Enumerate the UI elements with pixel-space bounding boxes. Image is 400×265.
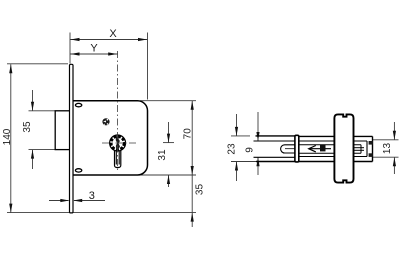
35 bottom arrow (outside, below) [191, 213, 194, 222]
3 dim lines [49, 200, 69, 202]
70/31/35 mid extension (body bottom) [138, 174, 197, 176]
X dimension line [70, 39, 148, 41]
svg-text:9: 9 [245, 147, 256, 153]
svg-text:Y: Y [90, 43, 98, 55]
70 arrows [191, 101, 194, 110]
svg-text:3: 3 [89, 190, 95, 202]
31 arrows (outside) [167, 134, 170, 143]
70/35 dim vertical line [191, 101, 193, 227]
13 dim tails [393, 122, 395, 140]
tube outer [256, 135, 296, 137]
23 top extension [231, 135, 250, 137]
cylinder nose capsule [281, 145, 295, 153]
follower arrow inside body [309, 145, 331, 152]
lines right of plate [354, 147, 365, 149]
svg-text:140: 140 [2, 128, 13, 145]
9 dim tails [257, 112, 259, 141]
black block [320, 145, 326, 151]
Y arrows [71, 52, 80, 55]
140 arrows [9, 64, 12, 73]
euro cylinder: plug circle [110, 135, 126, 151]
35 protrusion box on back of faceplate [55, 111, 69, 150]
140 dimension line [10, 64, 12, 212]
cylinder knurling (dark ring with slots) [111, 137, 124, 150]
bold end marks [369, 141, 373, 145]
cylinder keyway dark centre [116, 136, 120, 149]
screw head [102, 118, 109, 125]
svg-text:13: 13 [382, 143, 393, 155]
35 left dim: tails [32, 90, 34, 111]
Y dimension line [70, 53, 118, 55]
body outer [299, 135, 373, 137]
70 top extension [140, 100, 196, 102]
X arrows [71, 38, 80, 41]
body inner channel [299, 140, 367, 142]
faceplate (edge-on) [295, 135, 299, 162]
23/tube bottom extension [231, 161, 256, 163]
svg-text:31: 31 [157, 149, 168, 161]
lock body (side view) [299, 136, 373, 161]
arrowheads, right view [235, 127, 396, 171]
svg-text:35: 35 [194, 184, 205, 196]
oval slot bottom [75, 169, 81, 172]
35 left extension lines [29, 110, 56, 112]
extension line right (body right edge up) [147, 33, 149, 100]
cylinder tube (side view) [254, 136, 296, 162]
lock body [73, 101, 148, 175]
35 left arrows (outside pointing in) [31, 102, 34, 111]
23 arrows [235, 127, 238, 136]
oval slot top [75, 103, 81, 106]
3 arrows [60, 199, 69, 202]
svg-text:23: 23 [226, 143, 237, 155]
23 dim tails [236, 114, 238, 136]
13 arrows [393, 131, 396, 140]
key slot inner lines [115, 150, 117, 165]
body right end cap [372, 136, 374, 161]
svg-text:70: 70 [183, 128, 194, 140]
13 extension lines [373, 139, 399, 141]
9 arrows [256, 132, 259, 141]
arrowheads, left view [9, 38, 194, 222]
tube bore [254, 140, 296, 142]
inner step [299, 144, 361, 146]
31 short extension at cylinder centre [163, 142, 174, 144]
nose seam [285, 148, 295, 150]
escutcheon plate (tall rounded rect with notches) [334, 114, 353, 182]
centre line horizontal (dash-dot) [102, 142, 136, 144]
euro cylinder: keyhole slot [115, 143, 121, 168]
svg-text:X: X [109, 28, 117, 40]
centre line vertical (dash-dot) [117, 51, 119, 173]
140/35 bottom extension (long) [7, 212, 196, 214]
140 top extension [7, 63, 68, 65]
extension line left (faceplate top) [69, 33, 71, 64]
faceplate [70, 64, 74, 213]
31 dim tails [168, 122, 170, 143]
svg-text:35: 35 [22, 121, 33, 133]
